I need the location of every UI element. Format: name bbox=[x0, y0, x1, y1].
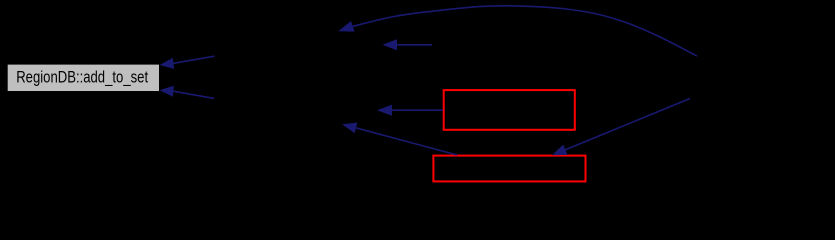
svg-text:RegionDB::add_to_set: RegionDB::add_to_set bbox=[16, 69, 148, 87]
